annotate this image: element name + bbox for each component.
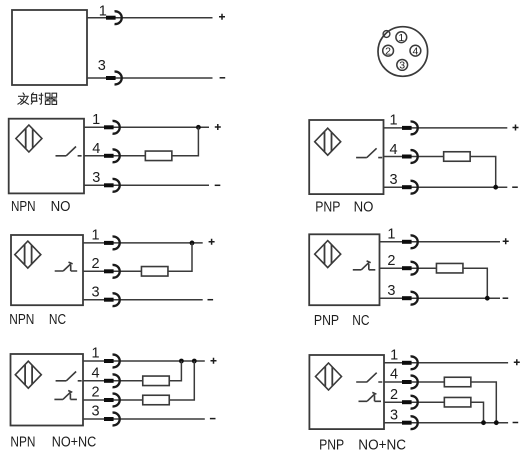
wire pin1 transmitter bbox=[87, 17, 213, 19]
sensor box PNP NO bbox=[309, 120, 383, 194]
label + bbox=[219, 14, 225, 20]
connector plug pin 3 bbox=[104, 179, 120, 192]
wire pin2 bbox=[83, 270, 142, 272]
wire pin3 bbox=[83, 299, 203, 301]
svg-text:2: 2 bbox=[387, 253, 395, 269]
NO contact bbox=[56, 372, 82, 381]
svg-text:4: 4 bbox=[92, 141, 100, 157]
sensor symbol bbox=[15, 361, 41, 388]
label + bbox=[209, 239, 215, 245]
wire pin1 bbox=[83, 242, 203, 244]
svg-text:NPN: NPN bbox=[11, 199, 36, 215]
svg-text:NC: NC bbox=[352, 313, 369, 329]
load resistor NO bbox=[444, 377, 471, 387]
svg-text:2: 2 bbox=[91, 256, 99, 272]
wire pin4 bbox=[84, 155, 146, 157]
connector plug pin 3 bbox=[402, 292, 418, 305]
connector plug pin 2 bbox=[104, 394, 120, 407]
sensor symbol bbox=[15, 241, 41, 268]
svg-text:4: 4 bbox=[91, 366, 99, 382]
junction dot b bbox=[494, 420, 499, 425]
keyway notch bbox=[383, 31, 390, 38]
load resistor bbox=[436, 263, 463, 273]
wire pin3 bbox=[384, 186, 508, 188]
sensor box PNP NC bbox=[309, 234, 379, 305]
M12 connector face bbox=[378, 27, 428, 77]
svg-text:2: 2 bbox=[385, 45, 391, 57]
wire resistor to + rail bbox=[168, 243, 192, 271]
junction dot a bbox=[179, 359, 184, 364]
label - bbox=[512, 186, 518, 188]
junction dot a bbox=[481, 420, 486, 425]
svg-text:1: 1 bbox=[92, 112, 100, 128]
svg-text:3: 3 bbox=[387, 283, 395, 299]
wire resistor NO to - rail bbox=[471, 382, 496, 423]
wire pin4 bbox=[83, 380, 144, 382]
connector plug pin 1 bbox=[402, 356, 418, 369]
svg-text:NO: NO bbox=[354, 199, 374, 215]
svg-text:NPN: NPN bbox=[10, 434, 35, 450]
sensor box NPN NO bbox=[9, 119, 84, 194]
label + bbox=[503, 238, 509, 244]
connector plug pin 2 bbox=[402, 262, 418, 275]
wire pin2 bbox=[384, 401, 445, 403]
svg-text:NO: NO bbox=[51, 199, 71, 215]
svg-text:1: 1 bbox=[387, 227, 395, 243]
pin 2 circle bbox=[383, 45, 394, 56]
wire resistor to - rail bbox=[463, 268, 487, 298]
connector plug pin 3 bbox=[402, 181, 418, 194]
sensor box PNP NO+NC bbox=[309, 355, 384, 429]
connector plug pin 4 bbox=[402, 376, 418, 389]
wire resistor to + rail bbox=[172, 127, 199, 156]
wire pin3 bbox=[83, 418, 205, 420]
pin 1 circle bbox=[396, 32, 407, 43]
wire resistor NC to + rail bbox=[169, 361, 194, 400]
label + bbox=[513, 125, 519, 131]
svg-text:3: 3 bbox=[91, 284, 99, 300]
label 发射器 bbox=[18, 93, 57, 105]
connector plug pin 2 bbox=[402, 396, 418, 409]
load resistor bbox=[444, 152, 471, 162]
connector plug pin 1 bbox=[104, 355, 120, 368]
label - bbox=[513, 422, 519, 424]
wire pin3 bbox=[84, 184, 209, 186]
svg-text:4: 4 bbox=[412, 45, 418, 57]
junction dot bbox=[196, 125, 201, 130]
svg-text:1: 1 bbox=[398, 32, 404, 44]
connector plug pin 1 bbox=[106, 11, 122, 24]
wire pin1 bbox=[384, 362, 508, 364]
wire pin4 bbox=[384, 156, 445, 158]
svg-text:PNP: PNP bbox=[319, 437, 344, 453]
svg-text:1: 1 bbox=[91, 228, 99, 244]
NC contact bbox=[359, 392, 382, 401]
load resistor bbox=[145, 151, 172, 161]
svg-text:3: 3 bbox=[91, 404, 99, 420]
wire pin1 bbox=[384, 127, 508, 129]
connector plug pin 3 bbox=[104, 293, 120, 306]
wire pin1 bbox=[84, 126, 209, 128]
sensor symbol bbox=[315, 241, 341, 268]
load resistor bbox=[141, 267, 168, 277]
svg-text:NO+NC: NO+NC bbox=[358, 437, 406, 453]
NC contact bbox=[353, 261, 376, 270]
connector plug pin 1 bbox=[104, 237, 120, 250]
NC contact bbox=[54, 391, 77, 400]
wire resistor to - rail bbox=[470, 157, 496, 188]
svg-text:NO+NC: NO+NC bbox=[52, 434, 97, 450]
connector plug pin 4 bbox=[104, 149, 120, 162]
svg-text:3: 3 bbox=[92, 170, 100, 186]
svg-text:3: 3 bbox=[390, 407, 398, 423]
junction dot bbox=[493, 185, 498, 190]
svg-text:NPN: NPN bbox=[9, 312, 34, 328]
load resistor NC bbox=[444, 397, 471, 407]
pin 4 circle bbox=[410, 45, 421, 56]
wire resistor NO to + rail bbox=[169, 361, 181, 381]
sensor symbol bbox=[315, 128, 341, 155]
wire pin2 bbox=[380, 267, 438, 269]
wire pin2 bbox=[83, 399, 144, 401]
load resistor NC bbox=[143, 395, 170, 405]
svg-text:2: 2 bbox=[390, 387, 398, 403]
pin 3 circle bbox=[397, 60, 408, 71]
label - bbox=[220, 77, 226, 79]
label - bbox=[503, 297, 509, 299]
junction dot bbox=[485, 296, 490, 301]
label + bbox=[514, 359, 520, 365]
svg-text:1: 1 bbox=[390, 113, 398, 129]
NO contact bbox=[356, 373, 382, 382]
label - bbox=[208, 299, 214, 301]
label + bbox=[211, 358, 217, 364]
load resistor NO bbox=[143, 376, 170, 386]
svg-text:3: 3 bbox=[389, 172, 397, 188]
sensor box NPN NO+NC bbox=[11, 354, 84, 426]
svg-text:3: 3 bbox=[98, 58, 106, 74]
connector plug pin 1 bbox=[402, 235, 418, 248]
sensor symbol bbox=[316, 363, 342, 390]
svg-text:1: 1 bbox=[390, 348, 398, 364]
connector plug pin 4 bbox=[402, 150, 418, 163]
label + bbox=[215, 124, 221, 130]
svg-text:1: 1 bbox=[99, 4, 107, 20]
connector plug pin 3 bbox=[104, 413, 120, 426]
junction dot bbox=[190, 241, 195, 246]
svg-text:3: 3 bbox=[399, 60, 405, 72]
svg-text:PNP: PNP bbox=[315, 199, 340, 215]
connector plug pin 3 bbox=[402, 416, 418, 429]
svg-text:4: 4 bbox=[389, 142, 397, 158]
connector plug pin 1 bbox=[104, 121, 120, 134]
NC contact bbox=[55, 262, 77, 271]
transmitter box 发射器 bbox=[12, 10, 87, 85]
svg-text:2: 2 bbox=[91, 385, 99, 401]
NO contact bbox=[356, 148, 382, 157]
svg-text:NC: NC bbox=[49, 312, 66, 328]
wire pin3 bbox=[380, 297, 501, 299]
connector plug pin 1 bbox=[402, 122, 418, 135]
sensor box NPN NC bbox=[11, 235, 83, 305]
wire pin1 bbox=[380, 241, 501, 243]
label - bbox=[215, 184, 221, 186]
svg-text:4: 4 bbox=[390, 367, 398, 383]
junction dot b bbox=[192, 359, 197, 364]
label - bbox=[210, 418, 216, 420]
svg-text:PNP: PNP bbox=[314, 313, 339, 329]
NO contact bbox=[55, 147, 81, 156]
sensor symbol bbox=[16, 125, 42, 152]
connector plug pin 4 bbox=[104, 374, 120, 387]
wire pin4 bbox=[384, 381, 445, 383]
svg-text:1: 1 bbox=[91, 346, 99, 362]
wire pin3 transmitter bbox=[87, 77, 213, 79]
wire pin1 bbox=[83, 360, 205, 362]
connector plug pin 2 bbox=[104, 265, 120, 278]
connector plug pin 3 bbox=[106, 72, 122, 85]
wire resistor NC to - rail bbox=[471, 402, 484, 423]
wire pin3 bbox=[384, 422, 508, 424]
